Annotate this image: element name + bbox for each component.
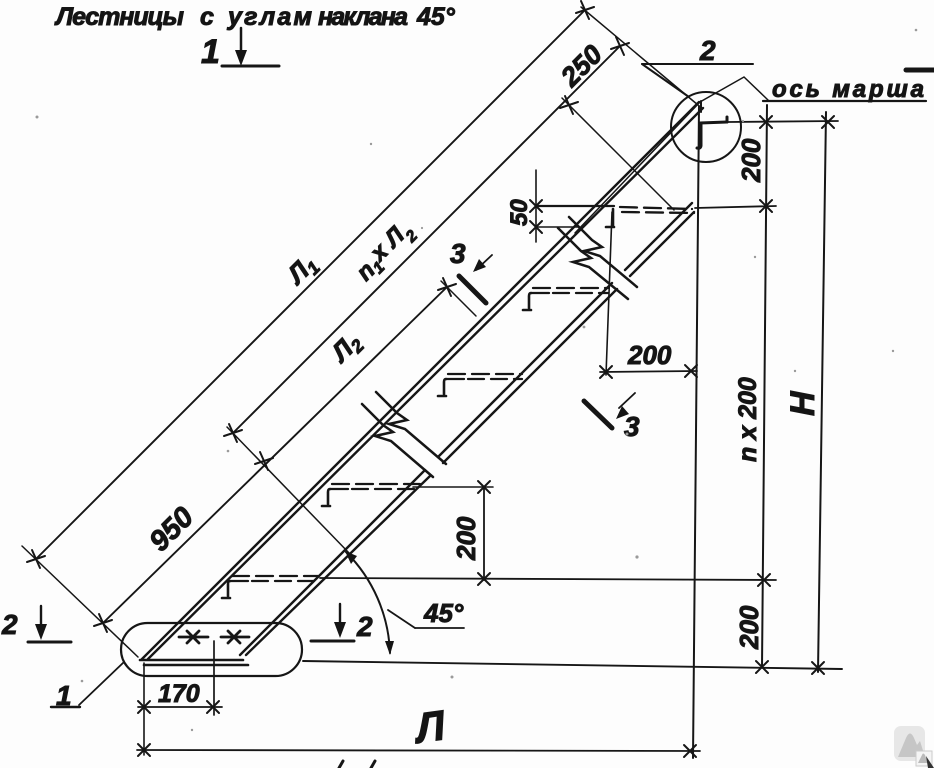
extension line mid (950/L2 boundary) bbox=[227, 427, 350, 554]
200 left dimension (vertical) bbox=[413, 481, 493, 585]
svg-text:170: 170 bbox=[158, 680, 200, 708]
svg-text:углам: углам bbox=[226, 3, 312, 31]
svg-text:200: 200 bbox=[627, 340, 672, 370]
svg-text:с: с bbox=[200, 3, 214, 31]
svg-text:45°: 45° bbox=[416, 3, 456, 31]
weld marks inside oval bbox=[179, 631, 249, 643]
svg-text:200: 200 bbox=[451, 516, 481, 561]
watermark logo bbox=[894, 726, 934, 768]
svg-text:3: 3 bbox=[624, 411, 640, 442]
svg-text:наклана: наклана bbox=[318, 3, 408, 31]
stringer vertex cap bbox=[700, 101, 702, 112]
label 2 with leader (top) bbox=[642, 35, 753, 97]
thick mark top right bbox=[906, 68, 934, 73]
axis leader and label bbox=[763, 76, 926, 103]
svg-text:1: 1 bbox=[201, 33, 220, 71]
upper break lines bbox=[558, 217, 637, 299]
foot plate at stringer base bbox=[140, 660, 248, 665]
main stringer top rail (double line) bbox=[142, 102, 703, 659]
H dimension line bbox=[818, 112, 826, 672]
partial 1-1 at bottom edge bbox=[339, 761, 375, 768]
step 6 (y=579) bbox=[222, 576, 318, 598]
svg-text:200: 200 bbox=[734, 605, 764, 650]
svg-text:950: 950 bbox=[143, 501, 200, 558]
dimension line 950 / L2 bbox=[103, 287, 447, 623]
top step angle bracket in circle bbox=[697, 117, 727, 148]
svg-text:50: 50 bbox=[506, 199, 533, 226]
extension line from stringer vertex bbox=[581, 7, 698, 105]
tick marks on diagonal dims bbox=[27, 1, 629, 632]
svg-text:45°: 45° bbox=[423, 598, 464, 628]
svg-text:250: 250 bbox=[554, 39, 608, 93]
50 extension lower bbox=[536, 226, 578, 228]
svg-text:Лестницы: Лестницы bbox=[54, 3, 184, 31]
svg-text:2: 2 bbox=[1, 609, 18, 640]
svg-text:3: 3 bbox=[450, 238, 466, 269]
detail circle at top bbox=[671, 92, 741, 162]
170 dimension bbox=[138, 641, 222, 755]
main vertical extension line bbox=[693, 106, 699, 758]
svg-text:200: 200 bbox=[736, 138, 766, 183]
L dimension bbox=[137, 701, 700, 757]
label 1 bottom with leader bbox=[51, 662, 124, 711]
svg-text:2: 2 bbox=[699, 35, 716, 66]
svg-text:2: 2 bbox=[356, 611, 373, 642]
svg-text:n x 200: n x 200 bbox=[734, 377, 762, 462]
main stringer bottom rail (double line, gaps at breaks) bbox=[240, 203, 694, 655]
svg-text:Л2: Л2 bbox=[324, 326, 368, 370]
horizontal extension y=580 bbox=[320, 578, 776, 580]
step 5 (y=487) bbox=[322, 484, 420, 506]
svg-text:n1x Л2: n1x Л2 bbox=[348, 215, 421, 288]
right vertical dimension line (200/n x 200/200) bbox=[762, 105, 767, 667]
step 3 (y=291) bbox=[523, 288, 608, 310]
dimension line L1 bbox=[36, 10, 585, 559]
axis of flight line (ось марша) bbox=[575, 77, 768, 233]
step 4 (y=377) bbox=[438, 374, 522, 396]
horizontal extension y=122 bbox=[728, 121, 838, 122]
section mark 3 lower bbox=[584, 393, 640, 442]
step 2 (y=206) bbox=[536, 206, 694, 227]
svg-text:H: H bbox=[784, 390, 822, 416]
extension line from top step bbox=[562, 98, 674, 210]
ground line y=667 bbox=[303, 661, 842, 669]
45 degree arc bbox=[345, 551, 464, 655]
horizontal extension y=207 bbox=[695, 206, 776, 208]
section mark 3 upper bbox=[450, 238, 492, 303]
svg-text:Л1: Л1 bbox=[280, 248, 324, 292]
section mark 1 (top) bbox=[201, 28, 279, 71]
50 dimension bbox=[506, 170, 542, 242]
oval around stringer base bbox=[121, 623, 302, 676]
section mark 2 right bbox=[311, 604, 373, 642]
extension line at L2 top / section 3 bbox=[441, 281, 476, 316]
svg-text:Л: Л bbox=[410, 701, 449, 752]
dimension line n1xL2 / 250 bbox=[233, 39, 620, 433]
svg-text:ось марша: ось марша bbox=[772, 76, 924, 103]
extension line from base corner bbox=[22, 546, 138, 657]
200 mid dimension (horizontal) bbox=[600, 212, 697, 378]
section mark 2 left bbox=[1, 606, 71, 642]
ticks right side bbox=[756, 116, 834, 674]
lower break lines bbox=[362, 392, 446, 477]
